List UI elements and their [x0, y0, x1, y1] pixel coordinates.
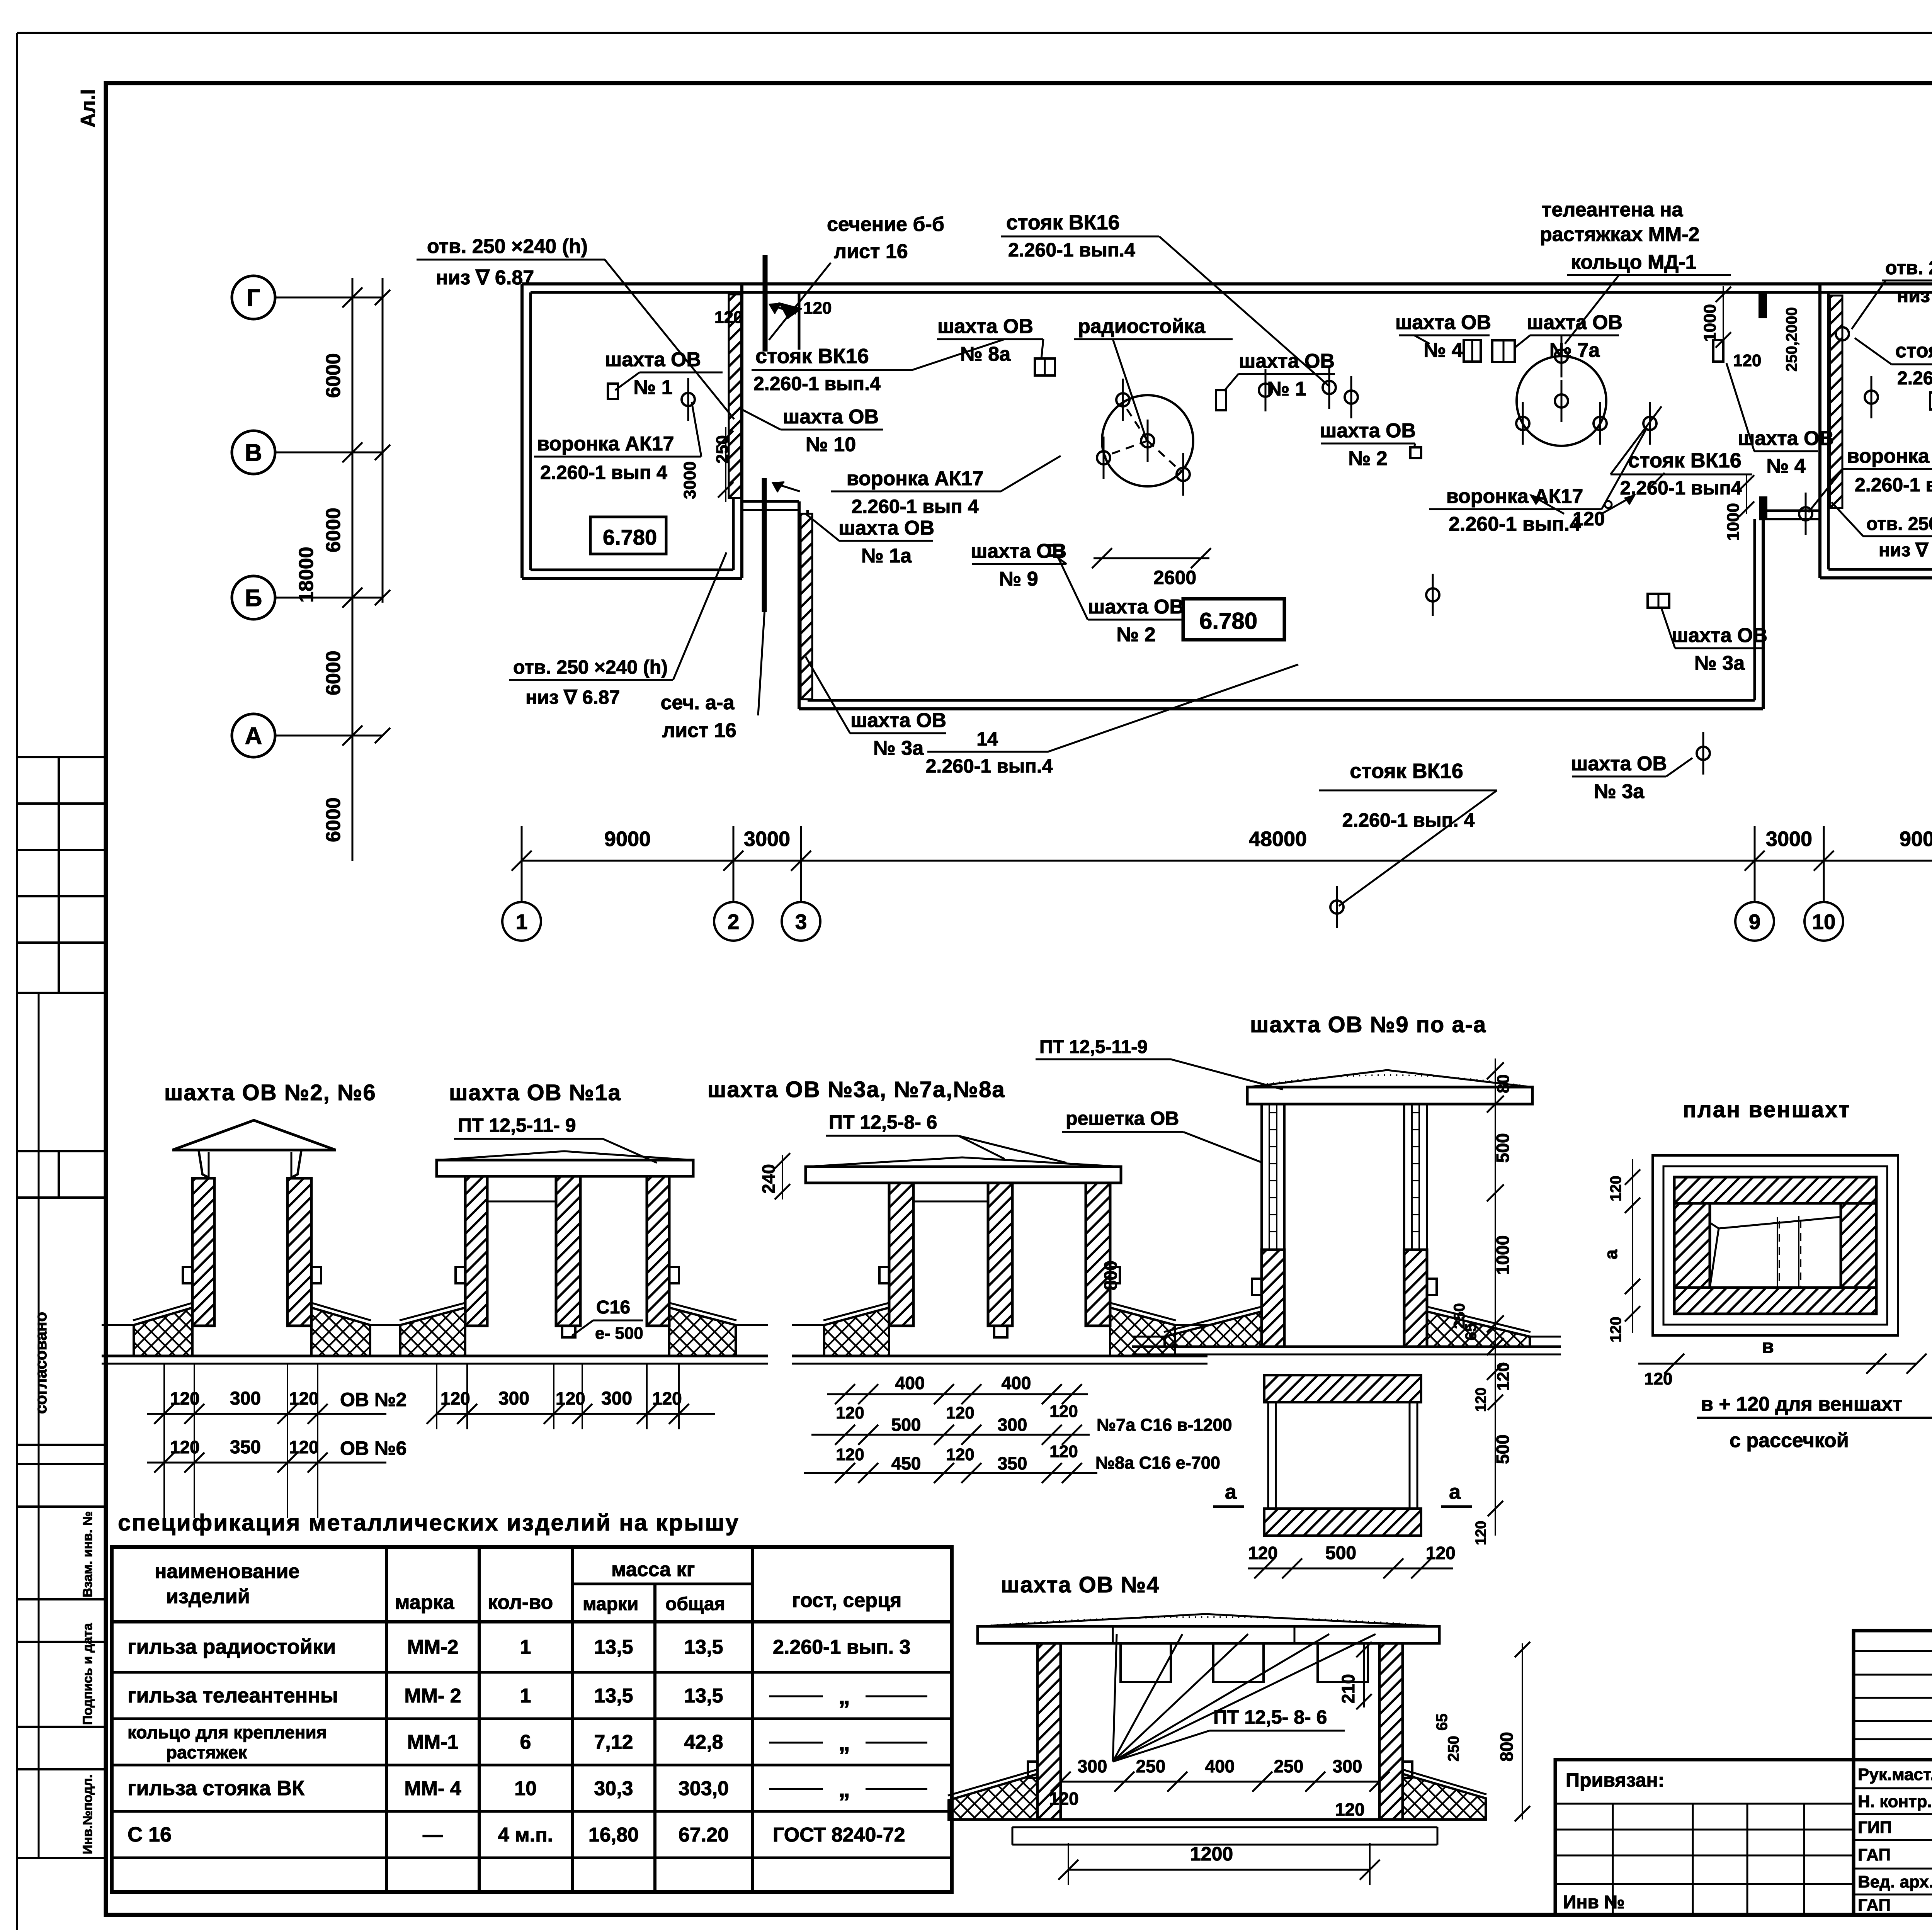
svg-text:ММ-1: ММ-1 — [407, 1731, 459, 1753]
svg-text:120: 120 — [1644, 1369, 1672, 1388]
svg-text:400: 400 — [1002, 1373, 1031, 1393]
svg-text:120: 120 — [170, 1437, 200, 1457]
svg-text:1: 1 — [520, 1636, 531, 1658]
svg-text:300: 300 — [1078, 1756, 1107, 1776]
svg-text:303,0: 303,0 — [679, 1777, 729, 1800]
svg-text:отв. 250 ×240(h): отв. 250 ×240(h) — [1866, 514, 1932, 534]
svg-text:„: „ — [838, 1730, 850, 1755]
svg-text:120: 120 — [556, 1388, 585, 1408]
svg-text:9: 9 — [1749, 910, 1761, 934]
svg-text:сечение б-б: сечение б-б — [827, 213, 944, 236]
svg-text:120: 120 — [1733, 351, 1761, 370]
svg-text:2.260-1 вып.4: 2.260-1 вып.4 — [753, 373, 881, 394]
svg-text:300: 300 — [601, 1388, 632, 1409]
svg-text:16,80: 16,80 — [588, 1824, 639, 1846]
svg-text:а: а — [1225, 1480, 1237, 1504]
svg-text:250: 250 — [1136, 1756, 1166, 1776]
svg-text:В: В — [245, 440, 262, 466]
svg-text:гильза телеантенны: гильза телеантенны — [128, 1684, 338, 1707]
svg-text:6000: 6000 — [322, 508, 345, 552]
svg-text:2.260-1 вып-4: 2.260-1 вып-4 — [1897, 368, 1932, 389]
svg-text:воронка АК17: воронка АК17 — [537, 433, 674, 455]
svg-text:Инв №: Инв № — [1563, 1892, 1625, 1913]
svg-text:низ ∇ 6.78: низ ∇ 6.78 — [1897, 285, 1932, 306]
svg-text:4 м.п.: 4 м.п. — [498, 1824, 553, 1846]
svg-text:шахта ОВ №9 по а-а: шахта ОВ №9 по а-а — [1250, 1012, 1486, 1037]
svg-text:С 16: С 16 — [128, 1823, 172, 1846]
svg-text:6.780: 6.780 — [603, 525, 657, 549]
svg-text:350: 350 — [230, 1437, 261, 1458]
svg-text:350: 350 — [998, 1453, 1027, 1473]
svg-text:стояк ВК16: стояк ВК16 — [1895, 340, 1932, 362]
svg-text:Б: Б — [245, 585, 262, 612]
svg-text:стояк ВК16: стояк ВК16 — [1628, 449, 1742, 472]
svg-text:№ 1: № 1 — [1267, 378, 1306, 400]
svg-text:13,5: 13,5 — [684, 1685, 723, 1707]
svg-text:№ 2: № 2 — [1116, 624, 1155, 646]
svg-text:10: 10 — [1812, 910, 1835, 934]
svg-text:ПТ 12,5-8- 6: ПТ 12,5-8- 6 — [829, 1111, 937, 1133]
svg-text:1200: 1200 — [1190, 1843, 1233, 1865]
svg-text:в: в — [1762, 1335, 1774, 1357]
svg-text:2.260-1 вып. 3: 2.260-1 вып. 3 — [773, 1636, 910, 1658]
svg-text:шахта ОВ: шахта ОВ — [937, 315, 1033, 338]
svg-text:250: 250 — [1451, 1303, 1468, 1329]
svg-text:растяжек: растяжек — [166, 1742, 247, 1762]
svg-text:шахта ОВ: шахта ОВ — [783, 406, 879, 428]
svg-text:№7а С16 в-1200: №7а С16 в-1200 — [1097, 1415, 1232, 1435]
svg-text:№ 3а: № 3а — [1594, 780, 1645, 803]
svg-text:№ 9: № 9 — [999, 568, 1038, 590]
svg-text:Привязан:: Привязан: — [1566, 1769, 1664, 1791]
svg-text:шахта ОВ: шахта ОВ — [1088, 596, 1184, 618]
svg-text:13,5: 13,5 — [594, 1685, 633, 1707]
svg-text:120: 120 — [803, 299, 832, 318]
svg-text:2: 2 — [728, 910, 740, 934]
svg-text:1000: 1000 — [1493, 1235, 1513, 1275]
svg-text:низ ∇ 6 78: низ ∇ 6 78 — [1879, 540, 1932, 561]
svg-text:250: 250 — [1445, 1736, 1462, 1762]
svg-text:а: а — [1601, 1249, 1621, 1259]
svg-text:ОВ №6: ОВ №6 — [340, 1437, 406, 1459]
svg-text:2.260-1 вып.4: 2.260-1 вып.4 — [1008, 239, 1135, 261]
svg-text:500: 500 — [891, 1415, 921, 1435]
svg-text:10: 10 — [514, 1777, 537, 1800]
svg-text:2.260-1 вып.4: 2.260-1 вып.4 — [1855, 474, 1932, 496]
svg-text:гильза стояка ВК: гильза стояка ВК — [128, 1777, 305, 1800]
svg-text:800: 800 — [1100, 1261, 1121, 1290]
svg-text:согласовано: согласовано — [32, 1312, 50, 1414]
svg-text:сеч. а-а: сеч. а-а — [661, 691, 735, 714]
svg-text:Ал.I: Ал.I — [77, 89, 99, 127]
svg-text:ПТ 12,5- 8- 6: ПТ 12,5- 8- 6 — [1213, 1706, 1327, 1728]
svg-text:120: 120 — [1607, 1176, 1624, 1201]
svg-text:кол-во: кол-во — [488, 1591, 553, 1614]
svg-text:„: „ — [838, 1776, 850, 1802]
svg-text:марка: марка — [395, 1591, 454, 1614]
svg-text:лист 16: лист 16 — [662, 719, 736, 742]
svg-text:шахта ОВ №2, №6: шахта ОВ №2, №6 — [164, 1080, 376, 1105]
svg-text:спецификация металлических и: спецификация металлических изделий на кр… — [118, 1510, 740, 1536]
svg-text:ГОСТ 8240-72: ГОСТ 8240-72 — [773, 1824, 905, 1846]
svg-text:6000: 6000 — [322, 651, 345, 695]
svg-text:№ 3а: № 3а — [873, 737, 924, 759]
svg-text:в + 120 для веншахт: в + 120 для веншахт — [1701, 1393, 1903, 1415]
svg-text:Взам. инв. №: Взам. инв. № — [80, 1511, 95, 1597]
svg-text:1: 1 — [520, 1685, 531, 1707]
svg-text:шахта ОВ: шахта ОВ — [1672, 624, 1767, 647]
svg-text:общая: общая — [665, 1594, 725, 1614]
svg-text:120: 120 — [1426, 1543, 1456, 1563]
svg-text:120: 120 — [289, 1437, 319, 1457]
svg-text:80: 80 — [1494, 1074, 1513, 1093]
svg-text:120: 120 — [652, 1388, 682, 1408]
svg-text:120: 120 — [289, 1388, 319, 1408]
svg-text:а: а — [1449, 1480, 1461, 1504]
svg-text:450: 450 — [891, 1453, 921, 1473]
svg-text:6.780: 6.780 — [1199, 608, 1257, 634]
svg-text:кольцо МД-1: кольцо МД-1 — [1571, 251, 1697, 274]
svg-text:120: 120 — [946, 1403, 974, 1422]
svg-text:план веншахт: план веншахт — [1683, 1097, 1851, 1122]
svg-text:ГАП: ГАП — [1858, 1845, 1891, 1864]
svg-text:120: 120 — [714, 308, 743, 327]
svg-text:низ ∇ 6.87: низ ∇ 6.87 — [526, 686, 620, 708]
svg-text:500: 500 — [1493, 1133, 1513, 1163]
svg-text:14: 14 — [976, 728, 998, 750]
svg-text:стояк ВК16: стояк ВК16 — [1350, 759, 1463, 783]
svg-text:2.260-1 вып 4: 2.260-1 вып 4 — [540, 462, 667, 483]
svg-text:120: 120 — [1049, 1442, 1078, 1461]
svg-text:2.260-1 вып.4: 2.260-1 вып.4 — [1449, 513, 1581, 535]
svg-text:решетка ОВ: решетка ОВ — [1066, 1108, 1179, 1129]
svg-text:6: 6 — [520, 1731, 531, 1753]
svg-text:№ 3а: № 3а — [1694, 652, 1745, 674]
svg-text:шахта ОВ: шахта ОВ — [1239, 350, 1335, 372]
svg-text:Рук.маст.: Рук.маст. — [1858, 1765, 1932, 1784]
svg-text:3: 3 — [795, 910, 807, 934]
svg-text:3000: 3000 — [1766, 827, 1812, 851]
svg-text:ГАП: ГАП — [1858, 1896, 1891, 1915]
svg-text:120: 120 — [170, 1388, 200, 1408]
svg-text:1000: 1000 — [1701, 304, 1719, 342]
svg-text:9000: 9000 — [604, 827, 651, 851]
svg-text:800: 800 — [1497, 1732, 1517, 1762]
svg-text:радиостойка: радиостойка — [1078, 315, 1206, 338]
svg-text:250,2000: 250,2000 — [1783, 307, 1800, 372]
svg-text:1: 1 — [516, 910, 528, 934]
svg-text:шахта ОВ: шахта ОВ — [1571, 753, 1667, 775]
svg-text:ММ-2: ММ-2 — [407, 1636, 459, 1658]
svg-text:Г: Г — [247, 285, 260, 311]
svg-text:210: 210 — [1338, 1674, 1358, 1704]
svg-text:120: 120 — [1049, 1402, 1078, 1421]
svg-text:№ 2: № 2 — [1348, 447, 1387, 470]
svg-text:С16: С16 — [596, 1297, 630, 1318]
svg-text:ММ- 4: ММ- 4 — [404, 1777, 461, 1800]
svg-text:шахта ОВ №1а: шахта ОВ №1а — [449, 1080, 621, 1105]
svg-text:масса кг: масса кг — [611, 1558, 695, 1581]
svg-text:шахта ОВ: шахта ОВ — [850, 709, 946, 732]
svg-text:250: 250 — [1274, 1756, 1304, 1776]
svg-text:лист 16: лист 16 — [834, 240, 908, 263]
svg-text:2.260-1 вып 4: 2.260-1 вып 4 — [852, 496, 979, 517]
svg-text:воронка АК17: воронка АК17 — [847, 467, 984, 490]
svg-text:300: 300 — [1333, 1756, 1362, 1776]
svg-text:гильза радиостойки: гильза радиостойки — [128, 1635, 336, 1658]
svg-text:65: 65 — [1434, 1714, 1451, 1731]
svg-text:120: 120 — [1494, 1363, 1513, 1391]
svg-text:120: 120 — [440, 1388, 470, 1408]
svg-text:13,5: 13,5 — [594, 1636, 633, 1658]
svg-text:2.260-1 вып4: 2.260-1 вып4 — [1620, 477, 1742, 499]
svg-text:ОВ №2: ОВ №2 — [340, 1389, 406, 1410]
svg-text:ГИП: ГИП — [1858, 1818, 1892, 1837]
svg-text:№ 1а: № 1а — [861, 545, 912, 567]
svg-text:Вед. арх.: Вед. арх. — [1858, 1872, 1932, 1891]
svg-text:„: „ — [838, 1683, 850, 1709]
svg-text:№ 10: № 10 — [806, 433, 856, 456]
svg-text:воронка АК17: воронка АК17 — [1847, 445, 1932, 467]
svg-text:120: 120 — [1473, 1388, 1489, 1412]
svg-text:наименование: наименование — [155, 1560, 299, 1583]
svg-text:300: 300 — [498, 1388, 529, 1409]
svg-text:ПТ 12,5-11-9: ПТ 12,5-11-9 — [1039, 1037, 1148, 1057]
svg-text:№ 4: № 4 — [1766, 455, 1805, 477]
svg-text:шахта ОВ: шахта ОВ — [971, 540, 1066, 562]
svg-text:1000: 1000 — [1724, 503, 1743, 541]
svg-text:№ 1: № 1 — [633, 376, 672, 399]
svg-text:2600: 2600 — [1153, 567, 1196, 588]
svg-text:шахта ОВ: шахта ОВ — [1527, 311, 1622, 334]
svg-text:3000: 3000 — [744, 827, 790, 851]
svg-text:кольцо для крепления: кольцо для крепления — [128, 1722, 327, 1742]
svg-text:42,8: 42,8 — [684, 1731, 723, 1753]
svg-text:шахта ОВ №3а, №7а,№8а: шахта ОВ №3а, №7а,№8а — [707, 1077, 1005, 1102]
svg-text:с рассечкой: с рассечкой — [1730, 1429, 1849, 1452]
svg-text:120: 120 — [1473, 1521, 1489, 1545]
svg-text:низ ∇ 6.87: низ ∇ 6.87 — [436, 267, 534, 289]
svg-text:30,3: 30,3 — [594, 1777, 633, 1800]
svg-text:400: 400 — [1205, 1756, 1235, 1776]
svg-text:120: 120 — [1049, 1789, 1079, 1809]
svg-text:растяжках ММ-2: растяжках ММ-2 — [1540, 223, 1699, 246]
svg-text:300: 300 — [230, 1388, 261, 1409]
svg-text:120: 120 — [1335, 1799, 1365, 1820]
svg-text:отв. 250 ×240(h): отв. 250 ×240(h) — [1885, 257, 1932, 279]
svg-text:7,12: 7,12 — [594, 1731, 633, 1753]
svg-text:стояк ВК16: стояк ВК16 — [1006, 211, 1120, 234]
svg-text:воронка АК17: воронка АК17 — [1446, 485, 1583, 508]
svg-text:Подпись и дата: Подпись и дата — [80, 1622, 95, 1725]
svg-text:№ 4: № 4 — [1423, 339, 1463, 362]
svg-text:е- 500: е- 500 — [595, 1324, 643, 1343]
svg-text:№ 7а: № 7а — [1549, 339, 1600, 362]
svg-text:марки: марки — [583, 1594, 638, 1614]
svg-text:2.260-1 вып.4: 2.260-1 вып.4 — [926, 755, 1053, 777]
svg-text:6000: 6000 — [322, 353, 345, 398]
svg-text:6000: 6000 — [322, 797, 345, 842]
svg-text:телеантена на: телеантена на — [1542, 199, 1684, 221]
svg-text:шахта ОВ: шахта ОВ — [1320, 420, 1416, 442]
svg-text:шахта ОВ №4: шахта ОВ №4 — [1001, 1572, 1160, 1597]
svg-text:стояк ВК16: стояк ВК16 — [755, 345, 869, 368]
svg-text:250: 250 — [713, 435, 732, 464]
svg-text:ММ- 2: ММ- 2 — [404, 1685, 461, 1707]
svg-text:Н. контр.: Н. контр. — [1858, 1792, 1932, 1811]
svg-text:120: 120 — [1248, 1543, 1278, 1563]
svg-text:120: 120 — [836, 1445, 864, 1464]
svg-text:отв. 250 ×240 (h): отв. 250 ×240 (h) — [513, 656, 668, 678]
svg-text:отв. 250 ×240 (h): отв. 250 ×240 (h) — [427, 235, 588, 258]
svg-text:шахта ОВ: шахта ОВ — [1395, 311, 1491, 334]
svg-text:300: 300 — [998, 1415, 1027, 1435]
svg-text:гост, серця: гост, серця — [792, 1589, 901, 1612]
svg-text:400: 400 — [895, 1373, 925, 1393]
svg-text:500: 500 — [1325, 1543, 1356, 1563]
svg-text:120: 120 — [946, 1445, 974, 1464]
svg-text:48000: 48000 — [1249, 827, 1307, 851]
svg-text:ПТ 12,5-11- 9: ПТ 12,5-11- 9 — [458, 1115, 576, 1136]
svg-text:А: А — [245, 723, 262, 749]
svg-text:500: 500 — [1493, 1434, 1513, 1464]
svg-text:№8а С16 е-700: №8а С16 е-700 — [1095, 1453, 1220, 1473]
svg-text:9000: 9000 — [1900, 827, 1932, 851]
svg-text:Инв.№подл.: Инв.№подл. — [80, 1774, 95, 1854]
svg-text:18000: 18000 — [295, 547, 318, 603]
svg-text:13,5: 13,5 — [684, 1636, 723, 1658]
svg-text:3000: 3000 — [680, 461, 699, 499]
svg-text:шахта ОВ: шахта ОВ — [838, 517, 934, 539]
svg-text:67.20: 67.20 — [679, 1824, 729, 1846]
svg-text:шахта ОВ: шахта ОВ — [605, 348, 701, 371]
svg-text:изделий: изделий — [166, 1585, 250, 1608]
svg-text:—: — — [423, 1824, 443, 1846]
svg-text:120: 120 — [1607, 1317, 1624, 1342]
svg-text:120: 120 — [836, 1403, 864, 1422]
